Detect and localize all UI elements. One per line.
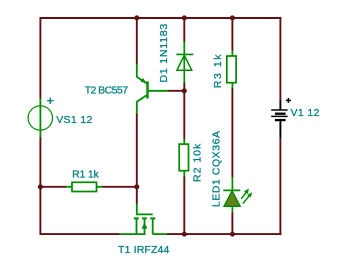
wire R2 to bottom rail [183,176,185,234]
wire right rail lower [279,138,281,235]
svg-text:R1 1k: R1 1k [72,168,99,180]
node dot top R3 [230,15,235,20]
wire right rail upper [279,17,281,100]
wire R1 row right [102,186,137,188]
transistor T2 [137,64,168,114]
node dot top D1 [182,15,187,20]
svg-text:T1 IRFZ44: T1 IRFZ44 [118,244,170,256]
VS1 plus sign [47,98,53,104]
node dot R1 left [38,184,43,189]
resistor R3 [227,51,236,89]
wire D1 to R2 [183,82,185,139]
svg-text:R3 1k: R3 1k [212,53,224,88]
T1 body arrow [142,223,148,229]
svg-text:LED1 CQX36A: LED1 CQX36A [211,130,223,207]
diode D1 [176,42,193,83]
wire LED to bottom rail [231,212,233,234]
wire left rail lower [39,137,41,235]
MOSFET T1 [119,203,167,234]
node dot bottom LED [230,232,235,237]
svg-text:V1 12: V1 12 [291,107,320,119]
resistor R1 [66,182,102,191]
svg-text:D1 1N1183: D1 1N1183 [158,23,170,83]
wire D1 column upper [183,18,185,42]
wire base net [168,90,185,92]
wire R3 to LED [231,88,233,177]
node dot base [182,88,187,93]
resistor R2 [179,139,188,177]
wire left rail upper [39,17,41,99]
svg-text:T2 BC557: T2 BC557 [85,85,129,97]
wire emitter drop from top rail [136,18,138,64]
V1 plus sign [286,98,291,103]
voltage source VS1 [28,98,52,137]
LED1 light arrows [241,189,252,204]
node dot top T2 emitter [134,15,139,20]
svg-text:R2 10k: R2 10k [192,143,204,182]
wire bottom rail right segment [167,233,282,235]
node dot bottom drain [182,232,187,237]
wire top rail [40,17,282,19]
wire R3 column upper [231,18,233,51]
node dot R1 right [134,184,139,189]
wire bottom rail left segment [40,233,120,235]
battery V1 [271,100,287,138]
wire collector to gate [136,114,138,204]
svg-text:VS1 12: VS1 12 [56,114,93,126]
LED LED1 [223,177,240,212]
wire R1 row left [40,186,66,188]
T2 emitter arrow [140,78,146,83]
